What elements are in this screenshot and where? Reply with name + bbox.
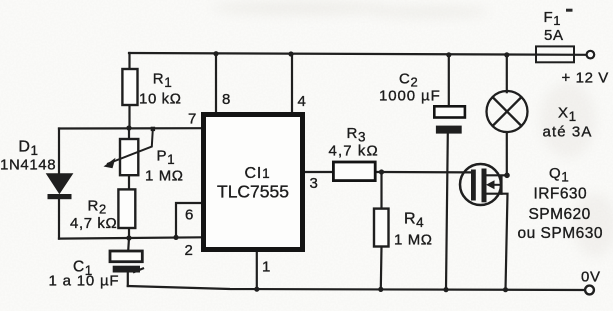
svg-text:TLC7555: TLC7555 bbox=[217, 182, 289, 202]
wire R4 bottom lead bbox=[380, 247, 383, 290]
junction bottom rail Q1 source bbox=[503, 287, 508, 292]
wire C1 top lead bbox=[127, 238, 130, 251]
svg-text:3: 3 bbox=[310, 175, 319, 192]
svg-text:4: 4 bbox=[298, 93, 307, 110]
wire Q1 source stub bbox=[487, 194, 508, 290]
capacitor C2 bbox=[434, 106, 465, 133]
wire left rail lower (D1 cathode) bbox=[58, 199, 60, 239]
resistor R2 bbox=[118, 189, 135, 228]
wire pin4 bbox=[291, 54, 293, 112]
junction top rail lamp bbox=[504, 52, 509, 57]
diode D1 bbox=[46, 173, 74, 199]
junction bottom rail R4 bbox=[378, 287, 383, 292]
svg-text:1: 1 bbox=[262, 259, 271, 276]
svg-text:5A: 5A bbox=[544, 27, 564, 44]
svg-text:IRF630: IRF630 bbox=[534, 186, 588, 203]
wire R3 to gate bbox=[375, 171, 471, 174]
svg-text:1N4148: 1N4148 bbox=[0, 157, 56, 174]
capacitor C1 bbox=[110, 251, 144, 273]
svg-text:1 MΩ: 1 MΩ bbox=[394, 232, 433, 249]
svg-text:1 a 10 µF: 1 a 10 µF bbox=[49, 273, 120, 290]
svg-text:2: 2 bbox=[185, 242, 194, 259]
node 0V terminal bbox=[585, 286, 594, 295]
svg-text:ou SPM630: ou SPM630 bbox=[518, 225, 604, 242]
wire R1 bottom lead bbox=[128, 105, 130, 128]
wire pin3 to R3 bbox=[305, 171, 333, 173]
junction top rail pin4 bbox=[288, 51, 293, 56]
op-amp U1 IC CI1 TLC7555 body bbox=[204, 115, 303, 250]
wire left rail upper (D1 anode) bbox=[58, 129, 60, 175]
svg-text:SPM620: SPM620 bbox=[529, 206, 591, 223]
svg-text:10 kΩ: 10 kΩ bbox=[139, 91, 182, 108]
wire Q1 drain stub bbox=[487, 174, 508, 176]
wire pin6 stub bbox=[176, 203, 201, 237]
svg-text:4,7 kΩ: 4,7 kΩ bbox=[329, 143, 379, 160]
wire pin7 net horizontal bbox=[59, 127, 201, 130]
svg-text:6: 6 bbox=[185, 207, 194, 224]
wire pin8 bbox=[215, 54, 217, 112]
wire C1 bottom lead bbox=[127, 273, 129, 287]
potentiometer P1 body bbox=[120, 139, 138, 175]
node +12V terminal bbox=[587, 51, 595, 59]
wire R4 top lead bbox=[380, 172, 382, 209]
junction R2 C1 pin2 bbox=[126, 235, 131, 240]
junction bottom rail pin1 bbox=[254, 287, 259, 292]
junction bottom rail C2 bbox=[443, 287, 448, 292]
wire P1 top stub bbox=[128, 128, 130, 139]
resistor R3 bbox=[333, 162, 375, 181]
lamp X1 bbox=[487, 91, 528, 132]
svg-text:8: 8 bbox=[222, 91, 231, 108]
resistor R1 bbox=[122, 69, 137, 105]
wire R1 top lead bbox=[128, 53, 130, 69]
wire pin2 net horizontal bbox=[59, 237, 201, 238]
svg-text:4,7 kΩ: 4,7 kΩ bbox=[70, 215, 117, 232]
resistor R4 bbox=[374, 209, 389, 247]
scan mark near F1 bbox=[566, 9, 573, 12]
wire pin1 bbox=[256, 252, 258, 289]
junction R1 P1 pin7 bbox=[126, 125, 131, 130]
svg-text:1 MΩ: 1 MΩ bbox=[145, 168, 184, 185]
junction top rail pin8 bbox=[213, 51, 218, 56]
svg-text:1000 µF: 1000 µF bbox=[379, 88, 441, 105]
wire lamp bottom lead bbox=[506, 133, 508, 175]
wire Q1 body bus bbox=[500, 176, 502, 194]
svg-text:até 3A: até 3A bbox=[543, 124, 593, 141]
svg-text:+ 12 V: + 12 V bbox=[562, 70, 609, 87]
wire P1 to R2 bbox=[128, 175, 130, 189]
svg-text:7: 7 bbox=[188, 111, 197, 128]
junction pin6 pin2 bbox=[173, 235, 178, 240]
wire bottom rail bbox=[128, 286, 585, 290]
transistor Q1 MOSFET bbox=[460, 164, 502, 205]
potentiometer P1 wiper arrow bbox=[104, 127, 156, 169]
svg-text:0V: 0V bbox=[581, 269, 601, 286]
junction top rail C2 bbox=[446, 52, 451, 57]
wire R2 bottom lead bbox=[128, 228, 130, 238]
wire C2 top lead bbox=[448, 55, 450, 107]
fuse F1 bbox=[536, 46, 574, 62]
junction R3 R4 gate bbox=[379, 169, 384, 174]
svg-text:CI1: CI1 bbox=[245, 165, 271, 182]
junction drain lamp bbox=[504, 173, 510, 179]
wire lamp top lead bbox=[506, 55, 508, 92]
wire top rail bbox=[129, 53, 586, 55]
wire C2 bottom lead bbox=[446, 134, 448, 290]
